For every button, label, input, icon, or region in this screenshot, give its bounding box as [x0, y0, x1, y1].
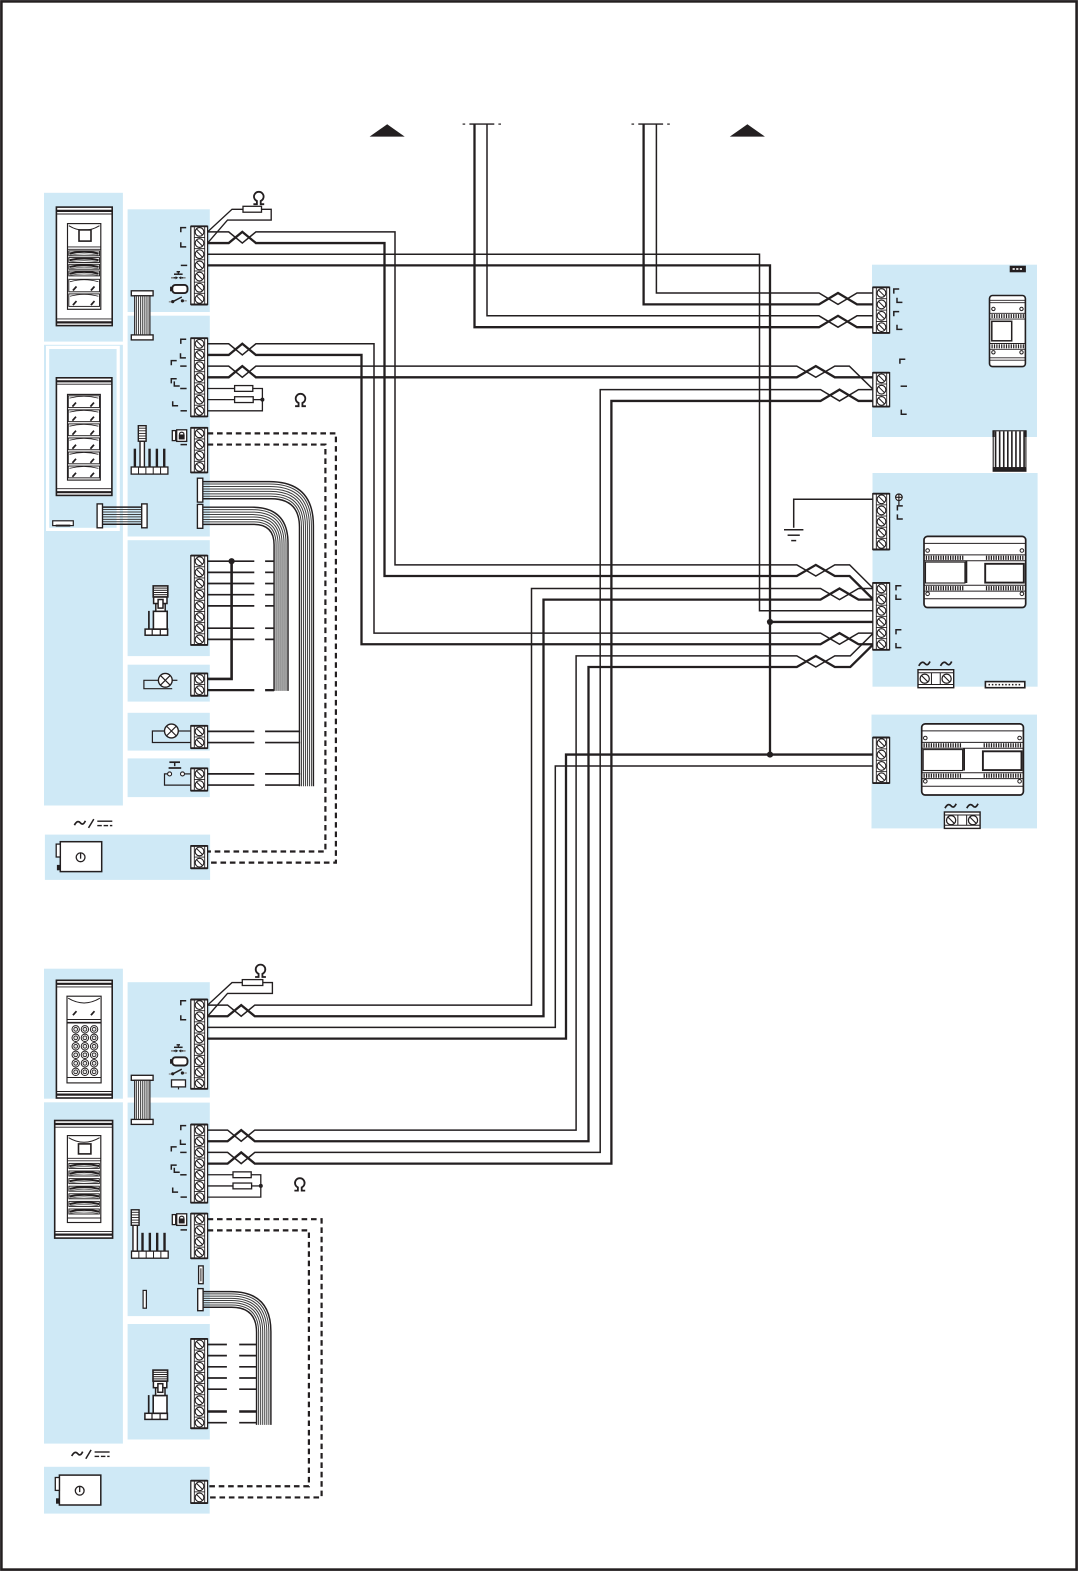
terminal block 3b (keypad station power) [191, 1214, 208, 1259]
wire BUS L1 from door station 1 (block1 t1, twisted pair) [208, 232, 874, 589]
panel: button box [128, 758, 210, 797]
wires lamp/button blocks to ribbon A [208, 730, 255, 732]
ribbon cable C (bottom group handset bus) [203, 1292, 271, 1425]
contact marks at block D [896, 586, 901, 591]
resistor R1 (line termination, door station 1) [208, 209, 243, 232]
riser pair 1 wire L2 [475, 124, 874, 327]
riser pair 2 wire L2 [644, 124, 874, 304]
terminal block 2b (keypad station out) [191, 1125, 208, 1203]
terminal block 8 (PSU output, top) [191, 846, 208, 868]
handset plug icon (bottom group) [145, 1413, 168, 1419]
wire from block1 t4 to controller row4 and lower box (junctions) [208, 265, 770, 754]
contact marks at block A [894, 289, 899, 294]
panel: riser distributor box 1 (right top) [872, 265, 1037, 437]
wire BUS OUT L1 keypad station (block2b t1) [208, 633, 874, 1141]
terminal block E (secondary box 4p) [873, 738, 890, 784]
label R2 ohm [295, 394, 306, 406]
riser continuation bar 1 [469, 123, 494, 125]
DIN relay device U1 (riser box) [990, 296, 1026, 367]
panel: power supply box (top group) [45, 835, 210, 880]
terminal block PSU2 output [191, 1481, 208, 1503]
panel: speaker unit box (terminal block 1) [128, 209, 210, 312]
lamp symbol (staircase light 1) [158, 673, 172, 687]
contact marks at block C [897, 506, 902, 511]
wire riser feed L2 (block2 t4, twisted) [208, 366, 874, 377]
panel: secondary controller box (right bottom) [872, 715, 1038, 829]
terminal block B (riser input 3p) [873, 373, 890, 407]
terminal block 1b (keypad station bus) [191, 1000, 208, 1089]
riser pair 2 wire L1 (to distributor rows 1-2) [656, 124, 873, 304]
configurator jumper icon (bottom group) [132, 1251, 169, 1258]
ribbon connector (vertical, bottom group) [131, 1075, 153, 1080]
dashed wire: block3 t2 to PSU t1 [208, 445, 326, 852]
wire block1b t4 to secondary box row2 [208, 755, 874, 1039]
junction node (controller row4) [767, 619, 773, 625]
ribbon cable A end cap [197, 478, 202, 502]
terminal block 1 (door station 1 bus) [191, 226, 208, 304]
panel: bottom handset box [128, 1324, 210, 1440]
earth wire from controller block C t1 [794, 499, 874, 528]
ribbon connector (vertical, top group) [131, 291, 153, 296]
panel: terminal block 2/3 box [128, 316, 210, 537]
label R1 ohm [253, 192, 264, 204]
resistor R4 (block2b t5-t7 termination) [208, 1174, 233, 1176]
terminal block D (controller bus 6p) [873, 583, 890, 650]
ground symbol [784, 529, 803, 531]
panel: left column lower (station 2 area) [44, 345, 123, 806]
panel: main controller box (right middle) [873, 473, 1038, 687]
panel: lamp box 1 [128, 665, 210, 702]
ribbon cable B end cap [197, 504, 202, 528]
panel: bottom block 1 box [128, 982, 210, 1097]
wire BUS L2 from door station 1 (block1 t2, twisted pair) [208, 232, 874, 600]
door lock icon (top block3) [172, 431, 175, 441]
ribbon cable (short, door station 2 to connector) [103, 506, 142, 508]
terminal block 7 (button) [191, 768, 208, 790]
dashed wire: block3b t1 to PSU2 t2 [208, 1219, 322, 1497]
terminal block 4b (bottom handset) [191, 1339, 208, 1428]
terminal block 3 (door station 1 power) [191, 428, 208, 473]
panel: power supply box (bottom group) [44, 1467, 210, 1514]
configurator jumper icon (top group) [131, 467, 168, 474]
panel: keypad door unit (bottom left) [44, 969, 123, 1099]
small connector bar icon 1 (bottom group) [199, 1266, 204, 1284]
wire riser feed L1 (block2 t3, twisted) [208, 366, 874, 390]
connector strip (controller bottom-right) [985, 682, 1024, 688]
power supply unit icon (bottom) [59, 1475, 100, 1505]
contact marks at block1 [181, 228, 186, 233]
DIN controller device U2 [924, 536, 1026, 607]
wire BUS L2 from keypad station (block1b t2) [208, 588, 874, 1016]
riser pair 1 wire L1 (to distributor rows 3-4) [487, 124, 873, 327]
terminal block C (controller aux 5p) [873, 494, 890, 550]
wire riser feed L2 keypad station (block2b t4) [208, 390, 874, 1164]
connector strip (riser box top-right) [1011, 267, 1026, 272]
terminal block 4 (handset connector) [191, 556, 208, 645]
dashed wire: block3 t1 to PSU t2 [208, 433, 336, 862]
panel: lamp box 2 [128, 713, 210, 751]
wire block5 t2 to ribbon [208, 689, 255, 691]
terminal block 5 (aux) [191, 673, 208, 695]
door station 3 (keypad entrance panel) [56, 980, 112, 1098]
label R3 ohm [255, 965, 266, 977]
terminal block A (riser distributor rows1-4) [873, 287, 890, 333]
resistor R3 (termination, keypad station) [208, 983, 243, 1005]
label AC/DC (bottom) [72, 1452, 83, 1456]
handset plug icon (top group) [145, 629, 168, 635]
dashed wire: block3b t2 to PSU2 t1 [208, 1230, 309, 1486]
lamp symbol (staircase light 2) [165, 724, 179, 738]
terminal block 6 (lamp) [191, 726, 208, 748]
label AC/DC (top) [74, 821, 85, 825]
panel: handset box (block 4) [128, 540, 210, 656]
earth electrode icon (block C) [896, 494, 903, 501]
ribbon cable C end cap [198, 1289, 203, 1311]
door lock icon (bottom block3b) [172, 1215, 175, 1225]
power supply unit icon (top) [60, 842, 101, 872]
wire BUS OUT L2 keypad station (block2b t2) [208, 644, 874, 1141]
ribbon cable (riser box 1 to controller) [993, 431, 1026, 468]
wire BUS OUT L2 door station 1 (block2 t2) [208, 344, 874, 644]
ribbon cable B (handset bus, lower) [203, 507, 288, 691]
contact marks at block2b [181, 1126, 186, 1131]
resistor R2 (block2 t5-t7 termination) [208, 387, 235, 389]
contact marks at block B [900, 359, 905, 364]
push button symbol [169, 761, 180, 763]
panel: bottom block 2/3 box [128, 1103, 210, 1317]
wire BUS OUT L1 door station 1 (block2 t1) [208, 344, 874, 644]
wire BUS L1 from keypad station (block1b t1) [208, 588, 874, 1016]
AC input terminal (controller) [919, 662, 930, 666]
door station 1 (video entrance panel) [56, 207, 112, 326]
junction wire block4 t1 down to block5 t1 [208, 561, 232, 679]
contact marks at block1b [181, 1001, 186, 1006]
wire from block1 t3 to controller row3 [208, 254, 874, 611]
wall bracket icon (top group) [53, 521, 74, 526]
DIN controller device U3 (secondary) [922, 724, 1024, 795]
door station 2 (audio entrance panel, 6 buttons) [56, 378, 112, 496]
outline around door station 2 [48, 347, 119, 529]
small connector bar icon 2 (bottom group) [143, 1290, 146, 1308]
riser continuation bar 2 [638, 123, 663, 125]
panel: left column lower (station 4 area) [44, 1102, 123, 1443]
direction triangle 1 [370, 124, 405, 136]
AC input terminal (secondary box) [945, 804, 956, 808]
label R4 ohm [294, 1178, 305, 1190]
ribbon cable A (handset bus, upper) [203, 482, 314, 787]
wire riser feed L1 keypad station (block2b t3) [208, 390, 874, 1164]
wires bottom handset block4b rows to ribbon C [208, 1343, 227, 1345]
terminal block 2 (door station 1 out) [191, 338, 208, 416]
panel: entrance door unit 1 (top left) [44, 193, 123, 342]
contact marks at block2 [181, 339, 186, 344]
wire block1b t3 to secondary box row3 [208, 766, 874, 1027]
door station 4 (video entrance panel with slats) [55, 1121, 113, 1239]
junction node (secondary box row2) [767, 751, 773, 757]
direction triangle 2 [730, 124, 765, 136]
wires handset block4 rows to ribbon [208, 560, 255, 562]
